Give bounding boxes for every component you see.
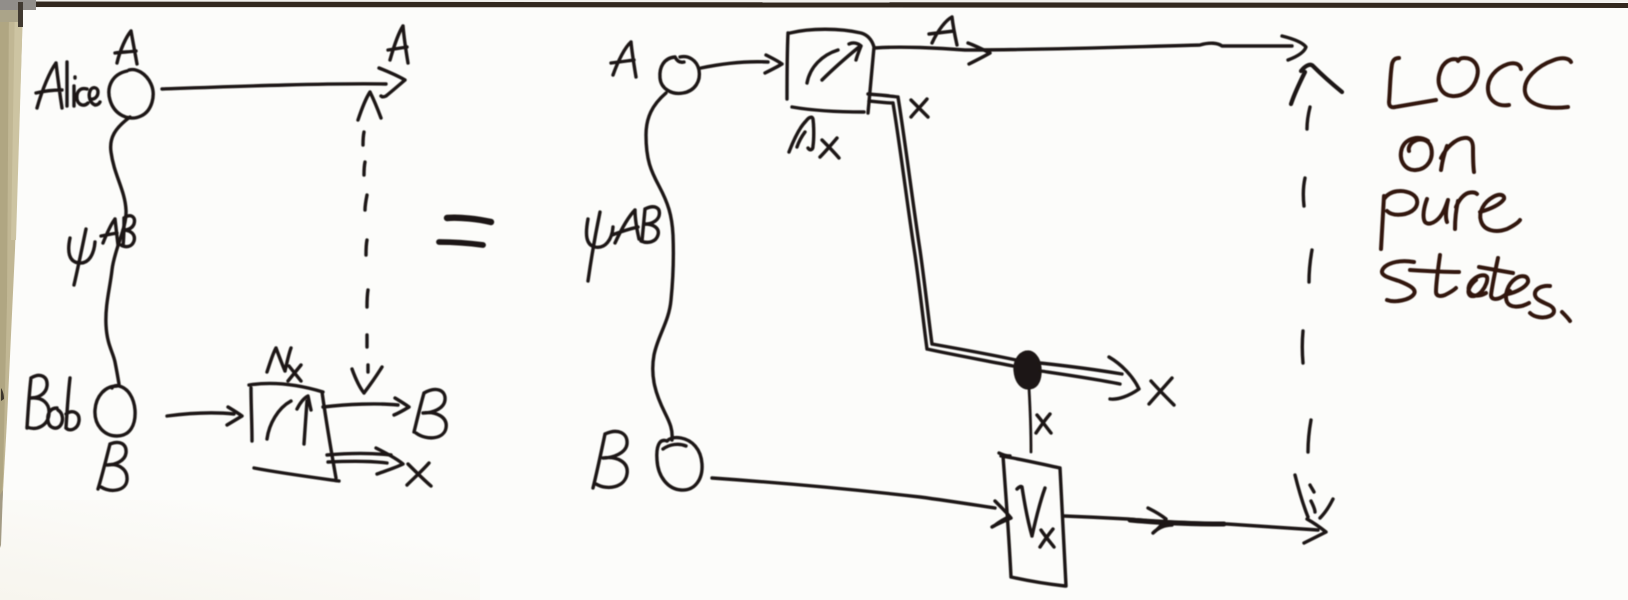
text states. — [1382, 261, 1415, 301]
label B under Bob — [98, 442, 127, 490]
arrowhead into Nx — [227, 407, 242, 425]
label x left — [407, 463, 431, 486]
label Vx — [1017, 487, 1054, 547]
dashed up arrowhead — [358, 92, 381, 120]
label x near Mx — [911, 99, 928, 117]
mid arrowhead on output — [1148, 508, 1172, 533]
arrowhead x left — [376, 448, 403, 474]
wire Nx to B — [323, 404, 398, 407]
arrowhead into Mx — [765, 55, 782, 73]
label B output — [414, 389, 446, 437]
label x above Vx — [1036, 414, 1051, 433]
qubit circle B right — [657, 438, 702, 490]
label A left of circle — [611, 42, 636, 77]
Bob qubit circle — [95, 386, 135, 436]
left beige frame strip (tapering wedge) — [0, 0, 23, 540]
retrace thick segment — [1130, 520, 1224, 524]
end arrowhead bottom right — [1304, 519, 1326, 543]
meter inside Nx — [267, 396, 311, 444]
copy dot — [1015, 352, 1040, 388]
label A at arrow end — [388, 26, 408, 63]
box Nx — [249, 383, 339, 481]
text on — [1401, 138, 1432, 170]
wire Alice to A (horizontal) — [162, 84, 386, 89]
top dark rail — [36, 0, 1628, 2]
meter inside Mx — [807, 43, 861, 83]
wire psi squiggle right — [646, 93, 673, 440]
small dark tick on board edge — [1, 388, 4, 401]
label A above Alice qubit — [115, 31, 137, 64]
text LOCC — [1389, 58, 1436, 107]
dashed vertical wire (classical) — [363, 132, 368, 372]
dashed classical wire right — [1302, 107, 1312, 452]
grey block top-left — [0, 0, 36, 10]
label Mx under box — [789, 117, 839, 158]
Alice qubit circle — [109, 70, 153, 118]
wire A output to right — [875, 43, 1292, 50]
wire Vx output to right — [1064, 516, 1318, 530]
arrowhead A wire end — [1282, 36, 1306, 60]
wire B to Vx — [712, 478, 995, 508]
qubit circle A right — [660, 57, 700, 94]
wire psi squiggle left — [106, 117, 130, 384]
arrowhead A right — [379, 68, 405, 97]
word Bob — [27, 375, 79, 429]
label psi^AB right — [586, 207, 659, 281]
hook arrow top right — [1291, 65, 1342, 104]
arrowhead x right — [1109, 357, 1139, 399]
dashed end arrowhead bottom — [1295, 475, 1333, 518]
double classical wire from Mx down — [868, 94, 1016, 366]
box Mx — [787, 29, 874, 113]
arrowhead at B — [394, 398, 409, 415]
wire Bob to Nx box — [167, 413, 234, 416]
label x right of arrow — [1149, 378, 1174, 405]
label Nx above box — [267, 348, 301, 381]
dark notch at board corner — [18, 2, 23, 27]
label psi^AB left — [69, 216, 135, 285]
text pure — [1381, 191, 1417, 249]
equals sign — [447, 218, 491, 222]
word Alice — [36, 62, 100, 108]
small arrowhead on A wire — [968, 43, 990, 64]
dashed down arrowhead V — [352, 367, 382, 393]
wire circle to Mx — [701, 62, 768, 68]
wire dot down to Vx — [1029, 388, 1031, 452]
label A on output wire — [929, 17, 957, 45]
label B left of circle — [593, 431, 627, 488]
arrowhead into Vx — [992, 501, 1011, 527]
double wire after dot — [1040, 363, 1122, 384]
double wire x output — [327, 454, 391, 464]
box Vx — [999, 453, 1066, 586]
